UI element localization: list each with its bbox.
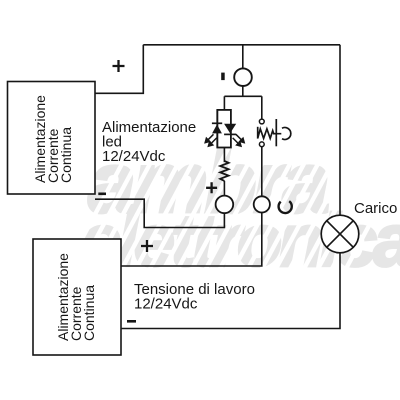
relay contact S1 (258, 119, 291, 146)
wire resistor to terminal A2 (223, 181, 225, 196)
svg-text:Continua: Continua (58, 127, 74, 183)
LED emission arrows left (205, 134, 217, 146)
wire branch split horizontal (224, 95, 261, 97)
wire coil terminal drop (242, 45, 244, 70)
wire split to LED box (223, 96, 225, 110)
terminal B1 (254, 196, 270, 212)
svg-text:12/24Vdc: 12/24Vdc (134, 296, 198, 313)
svg-text:Continua: Continua (81, 285, 97, 341)
label Alimentazione led 12/24Vdc (102, 119, 196, 165)
svg-text:12/24Vdc: 12/24Vdc (102, 148, 166, 165)
terminal A2 (216, 196, 234, 214)
DC supply box PS1 (8, 82, 96, 195)
minus label PS1 (98, 193, 106, 196)
polarity dash at A1 (221, 73, 225, 81)
wire B1 to PS2 plus (121, 213, 262, 267)
LED D1 left (anode down) (212, 110, 222, 148)
wire A2 to PS1 minus (95, 199, 224, 227)
wire top rail (143, 44, 340, 46)
watermark ambra elettronica (60, 130, 400, 282)
lamp L1 Carico (321, 215, 359, 253)
LED D2 right (anode up) (224, 124, 236, 135)
wire PS2 minus to lamp (121, 253, 340, 329)
svg-text:Carico: Carico (354, 200, 397, 217)
C mark at B1 (279, 201, 292, 213)
plus label LED supply (113, 60, 125, 72)
plus label PS2 (141, 240, 153, 252)
label Tensione di lavoro 12/24Vdc (134, 281, 255, 313)
PS2 label Alimentazione Corrente Continua (55, 253, 97, 341)
resistor R1 (220, 161, 228, 181)
plus label LED terminal (206, 182, 217, 193)
wire LED box to resistor R1 (223, 148, 225, 163)
contact terminal lower (259, 142, 264, 147)
terminal A1 (234, 68, 252, 86)
minus label PS2 (127, 320, 136, 323)
LED emission arrows right (233, 134, 245, 146)
wire A1 to branch split (242, 85, 244, 96)
wire PS1 plus to top rail (95, 45, 143, 94)
PS1 label Alimentazione Corrente Continua (32, 95, 74, 183)
DC supply box PS2 (33, 239, 121, 355)
wire right rail down to lamp (339, 45, 341, 216)
contact terminal upper (259, 119, 264, 124)
wire split to contact (261, 96, 263, 119)
LED indicator box (217, 110, 231, 148)
wire contact to terminal B1 (261, 147, 263, 197)
